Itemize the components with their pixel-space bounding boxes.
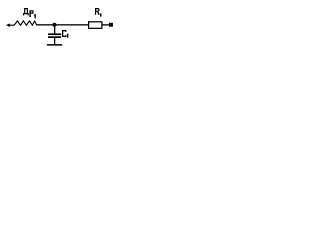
wire: junction down to capacitor bbox=[54, 25, 55, 34]
node junction dot bbox=[52, 23, 56, 27]
wire: capacitor to ground bbox=[54, 38, 55, 44]
right terminal (solid square) bbox=[109, 23, 113, 27]
inductor Dr1 (choke, zigzag symbol) bbox=[10, 21, 38, 26]
label R1 (letter R) bbox=[95, 8, 102, 17]
capacitor C1 top plate bbox=[48, 33, 61, 35]
label C1 (letter C) bbox=[62, 30, 68, 38]
wire arrow (left terminal) bbox=[6, 23, 10, 27]
resistor R1 (box symbol) bbox=[89, 22, 102, 29]
label C1 (subscript 1) bbox=[67, 34, 69, 38]
capacitor C1 bottom plate bbox=[48, 36, 61, 38]
label Dr1 (letter r cyrillic) bbox=[29, 10, 33, 17]
ground bar bbox=[47, 44, 62, 46]
wire: zigzag to resistor box bbox=[37, 24, 89, 25]
label Dr1 (subscript 1) bbox=[34, 14, 36, 18]
wire: resistor to right terminal bbox=[102, 24, 109, 25]
label Dr1 (letter D cyrillic) bbox=[23, 8, 36, 18]
label R1 (subscript 1) bbox=[100, 14, 102, 17]
